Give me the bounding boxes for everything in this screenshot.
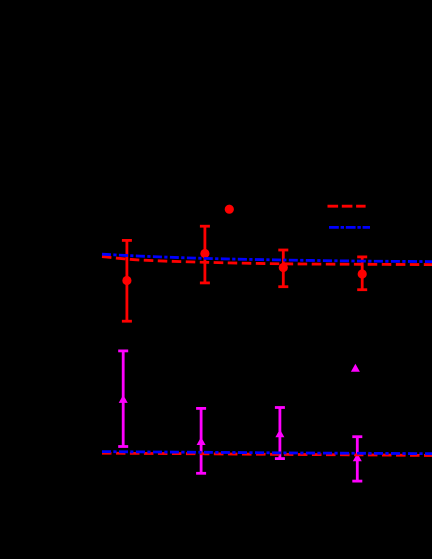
red model curve upper bbox=[102, 257, 432, 265]
red error bar point 1 bbox=[122, 240, 132, 321]
magenta marker 5 isolated bbox=[351, 364, 360, 372]
magenta marker 4 bbox=[353, 453, 362, 461]
blue model curve lower bbox=[102, 452, 432, 454]
red model curve lower bbox=[102, 453, 432, 455]
red marker 1 bbox=[122, 276, 131, 285]
red error bar point 4 bbox=[357, 257, 367, 290]
red error bar point 3 bbox=[278, 250, 288, 287]
magenta error bar point 2 bbox=[196, 408, 206, 473]
magenta error bar point 4 bbox=[352, 437, 362, 481]
red marker 4 bbox=[358, 269, 367, 278]
red marker 5 isolated bbox=[225, 205, 234, 214]
blue model curve upper bbox=[102, 254, 432, 261]
magenta error bar point 1 bbox=[118, 351, 128, 447]
magenta marker 2 bbox=[197, 437, 206, 445]
magenta error bar point 3 bbox=[275, 408, 285, 459]
red marker 2 bbox=[200, 249, 209, 258]
red error bar point 2 bbox=[200, 226, 210, 283]
red marker 3 bbox=[279, 263, 288, 272]
magenta marker 3 bbox=[275, 429, 284, 437]
legend blue dash-dot sample bbox=[329, 226, 370, 229]
magenta marker 1 bbox=[119, 395, 128, 403]
legend red dashed sample bbox=[328, 205, 366, 208]
